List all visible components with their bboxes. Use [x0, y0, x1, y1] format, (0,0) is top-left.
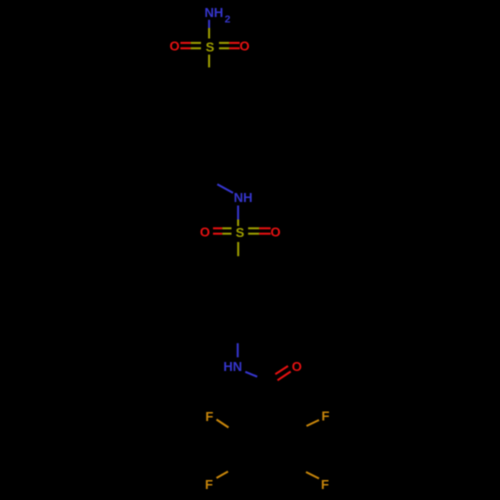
- wire S1-ring1 half bond: [208, 55, 210, 68]
- wire ring3-F2 half bond: [307, 420, 320, 426]
- wire C=O double bond (amide): [275, 366, 290, 380]
- wire N-S1 bond: [208, 20, 210, 39]
- wire S1=O1R double bond: [219, 43, 240, 48]
- svg-text:NH: NH: [205, 5, 224, 20]
- wire CH2-N half bond: [217, 184, 233, 193]
- wire ring3-F1 half bond: [217, 420, 229, 428]
- wire ring3-F4 half bond: [306, 472, 319, 479]
- svg-text:F: F: [205, 409, 213, 424]
- svg-text:O: O: [200, 224, 210, 239]
- wire ring2-N amide half bond: [237, 343, 239, 357]
- svg-text:S: S: [206, 39, 215, 54]
- wire S2=O2R double bond: [248, 228, 271, 233]
- wire N-C(=O) half bond: [245, 372, 257, 377]
- svg-text:F: F: [205, 477, 213, 492]
- svg-text:O: O: [292, 359, 302, 374]
- wire N-S2 bond: [237, 206, 239, 227]
- wire O1L=S1 double bond: [180, 43, 201, 48]
- svg-text:NH: NH: [234, 190, 253, 205]
- wire S2-ring2 half bond: [237, 242, 239, 256]
- svg-text:F: F: [322, 409, 330, 424]
- svg-text:S: S: [236, 225, 245, 240]
- svg-text:F: F: [321, 477, 329, 492]
- svg-text:HN: HN: [223, 359, 242, 374]
- wire ring3-F3 half bond: [217, 472, 229, 479]
- svg-text:O: O: [270, 224, 280, 239]
- wire O2L=S2 double bond: [213, 228, 232, 233]
- svg-text:O: O: [240, 38, 250, 53]
- svg-text:O: O: [169, 38, 179, 53]
- amine N label NH2: [205, 5, 231, 26]
- svg-text:2: 2: [225, 13, 231, 25]
